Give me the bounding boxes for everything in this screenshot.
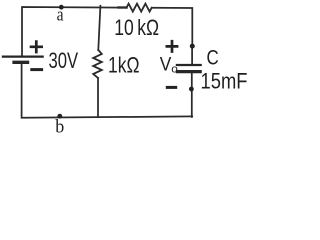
- node a dot: [59, 5, 64, 10]
- battery V1 short negative plate: [12, 61, 29, 64]
- battery minus sign: [30, 68, 43, 71]
- wire middle branch bottom lead: [97, 78, 99, 117]
- svg-text:30V: 30V: [49, 48, 79, 73]
- svg-text:1kΩ: 1kΩ: [108, 53, 140, 78]
- wire bottom rail: [22, 63, 193, 117]
- svg-text:V: V: [160, 55, 172, 76]
- capacitor C top plate: [176, 64, 202, 66]
- battery plus sign: [30, 40, 43, 53]
- wire top rail right segment with right vertical down to node dot: [152, 8, 193, 46]
- capacitor node top dot: [190, 44, 195, 49]
- output minus sign: [166, 86, 177, 89]
- wire top rail left segment with left vertical down to battery: [22, 7, 127, 56]
- wire middle branch top lead from top rail: [98, 6, 100, 50]
- capacitor C bottom plate: [176, 70, 202, 73]
- svg-text:a: a: [57, 4, 64, 25]
- svg-text:15mF: 15mF: [201, 69, 248, 94]
- node b dot: [57, 114, 62, 119]
- wire capacitor lower lead down to bottom rail: [191, 73, 193, 117]
- wire capacitor upper lead: [191, 46, 193, 65]
- resistor R 10k lead: [119, 6, 127, 8]
- resistor R1 1k vertical zigzag: [93, 50, 102, 78]
- capacitor node bottom dot: [189, 87, 194, 92]
- svg-text:o: o: [171, 64, 178, 76]
- svg-text:10 kΩ: 10 kΩ: [114, 15, 159, 40]
- resistor R 10k zigzag: [127, 4, 152, 12]
- svg-text:b: b: [55, 117, 64, 134]
- output plus sign: [166, 40, 179, 53]
- svg-text:C: C: [207, 47, 219, 70]
- battery V1 long positive plate: [2, 55, 44, 57]
